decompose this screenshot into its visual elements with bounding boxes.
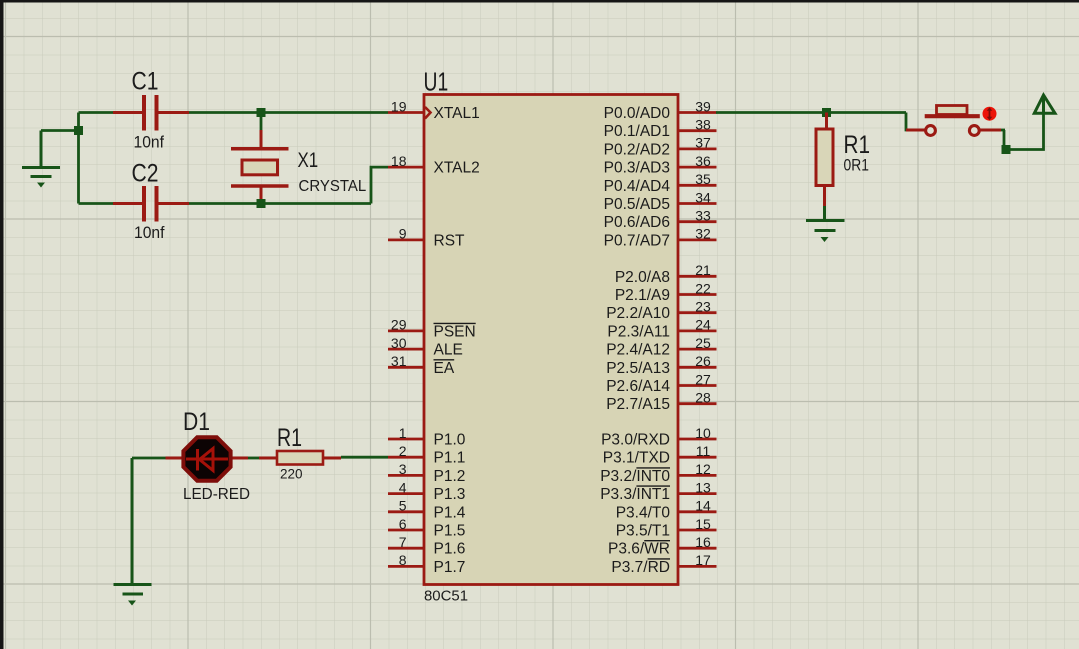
svg-text:EA: EA <box>434 360 455 377</box>
pin 6 P1.5 <box>388 516 465 540</box>
svg-text:P1.7: P1.7 <box>434 559 466 576</box>
crystal X1 <box>231 130 366 199</box>
wire bottom net C2 to xtal2 jog <box>189 202 371 205</box>
wire bottom net XTAL2 segment left of C2 <box>79 202 114 205</box>
svg-text:10nf: 10nf <box>134 132 165 151</box>
wire R1 to P1.1 pin <box>341 456 388 459</box>
pin 8 P1.7 <box>388 552 465 576</box>
push button <box>906 106 1001 136</box>
svg-text:P1.5: P1.5 <box>434 523 466 540</box>
svg-text:CRYSTAL: CRYSTAL <box>299 178 367 195</box>
svg-text:22: 22 <box>695 280 711 296</box>
svg-text:P3.2/INT0: P3.2/INT0 <box>600 468 670 485</box>
node junction at (826.5,112.5) <box>822 108 831 117</box>
pin 35 P0.4/AD4 <box>604 171 717 195</box>
svg-text:P1.4: P1.4 <box>434 504 466 521</box>
wire button to power <box>1004 113 1044 150</box>
pin 11 P3.1/TXD <box>603 443 717 467</box>
wire ground to vertical bus <box>41 129 79 132</box>
svg-text:21: 21 <box>695 262 711 278</box>
svg-text:P3.6/WR: P3.6/WR <box>608 541 670 558</box>
node junction crystal top (261,112.5) <box>257 108 266 117</box>
pin 22 P2.1/A9 <box>615 280 717 304</box>
resistor R1 0R1 (vertical) <box>816 113 870 208</box>
pin 4 P1.3 <box>388 479 465 503</box>
svg-text:XTAL2: XTAL2 <box>434 160 480 177</box>
svg-text:23: 23 <box>695 299 711 315</box>
svg-text:12: 12 <box>695 461 711 477</box>
ground (left, near C1/C2) <box>22 131 60 188</box>
wire top net XTAL1 segment left of C1 <box>79 111 114 114</box>
pin 27 P2.6/A14 <box>606 371 716 395</box>
svg-text:P2.6/A14: P2.6/A14 <box>606 378 670 395</box>
svg-text:30: 30 <box>391 335 407 351</box>
pin 26 P2.5/A13 <box>606 353 716 377</box>
wire LED net from ground riser <box>132 457 166 460</box>
svg-text:11: 11 <box>696 443 711 459</box>
pin 2 P1.1 <box>388 443 465 467</box>
pin 39 P0.0/AD0 <box>604 98 717 122</box>
svg-text:14: 14 <box>695 498 711 514</box>
pin 31 EA <box>388 353 455 377</box>
wire crystal top drop <box>260 113 263 132</box>
svg-text:1: 1 <box>399 425 407 441</box>
pin 24 P2.3/A11 <box>607 317 716 341</box>
pin 37 P0.2/AD2 <box>604 135 717 159</box>
svg-text:34: 34 <box>695 189 711 205</box>
svg-text:3: 3 <box>399 461 407 477</box>
svg-text:P3.7/RD: P3.7/RD <box>611 559 670 576</box>
svg-text:37: 37 <box>695 135 711 151</box>
svg-text:P1.3: P1.3 <box>434 486 466 503</box>
svg-text:18: 18 <box>391 153 407 169</box>
svg-text:P0.4/AD4: P0.4/AD4 <box>604 178 671 195</box>
pin 28 P2.7/A15 <box>606 390 716 414</box>
pin 38 P0.1/AD1 <box>604 117 717 141</box>
svg-text:D1: D1 <box>183 408 210 436</box>
svg-text:P3.0/RXD: P3.0/RXD <box>601 432 670 449</box>
pin 33 P0.6/AD6 <box>604 208 717 232</box>
pin 36 P0.3/AD3 <box>604 153 717 177</box>
svg-text:X1: X1 <box>298 149 319 172</box>
svg-text:P0.6/AD6: P0.6/AD6 <box>604 214 670 231</box>
svg-text:LED-RED: LED-RED <box>183 486 250 503</box>
svg-text:25: 25 <box>695 335 711 351</box>
pin 13 P3.3/INT1 <box>600 479 716 503</box>
IC U1 80C51 <box>424 95 678 585</box>
wire top net C1 to crystal node <box>189 111 388 114</box>
svg-text:P2.5/A13: P2.5/A13 <box>606 360 670 377</box>
svg-text:P1.2: P1.2 <box>434 468 466 485</box>
pin 14 P3.4/T0 <box>616 498 717 522</box>
svg-text:35: 35 <box>695 171 711 187</box>
svg-text:8: 8 <box>399 552 407 568</box>
wire jog up to XTAL2 pin <box>371 167 388 203</box>
pin 3 P1.2 <box>388 461 465 485</box>
svg-text:P2.2/A10: P2.2/A10 <box>606 305 670 322</box>
svg-text:P2.3/A11: P2.3/A11 <box>607 323 670 340</box>
pin 15 P3.5/T1 <box>616 516 717 540</box>
button actuator indicator <box>983 107 997 121</box>
pin 10 P3.0/RXD <box>601 425 716 449</box>
svg-text:17: 17 <box>695 552 711 568</box>
pin 1 P1.0 <box>388 425 466 449</box>
pin 16 P3.6/WR <box>608 534 717 558</box>
svg-text:29: 29 <box>391 317 407 333</box>
pin 5 P1.4 <box>388 498 466 522</box>
svg-text:P2.4/A12: P2.4/A12 <box>606 342 670 359</box>
svg-text:28: 28 <box>695 390 711 406</box>
pin 29 PSEN <box>388 317 476 341</box>
pin XTAL1 clock marker <box>425 107 431 119</box>
svg-text:27: 27 <box>695 371 711 387</box>
svg-text:P1.0: P1.0 <box>434 432 466 449</box>
pin 30 ALE <box>388 335 463 359</box>
svg-text:RST: RST <box>434 232 466 249</box>
svg-text:P3.4/T0: P3.4/T0 <box>616 504 671 521</box>
pin 17 P3.7/RD <box>611 552 716 576</box>
svg-text:220: 220 <box>280 467 303 482</box>
svg-text:C2: C2 <box>132 159 159 187</box>
svg-text:P0.1/AD1: P0.1/AD1 <box>604 123 670 140</box>
svg-text:4: 4 <box>399 479 407 495</box>
ground (under R1 0R1) <box>806 206 845 242</box>
svg-text:6: 6 <box>399 516 407 532</box>
svg-text:R1: R1 <box>844 131 871 159</box>
svg-text:P0.7/AD7: P0.7/AD7 <box>604 232 670 249</box>
node junction crystal bottom (261,203.5) <box>257 199 266 208</box>
svg-text:15: 15 <box>695 516 711 532</box>
svg-text:10nf: 10nf <box>134 223 165 242</box>
svg-text:P1.6: P1.6 <box>434 541 466 558</box>
pin 12 P3.2/INT0 <box>600 461 716 485</box>
svg-text:P2.1/A9: P2.1/A9 <box>615 287 670 304</box>
pin 25 P2.4/A12 <box>606 335 716 359</box>
svg-text:P3.1/TXD: P3.1/TXD <box>603 450 670 467</box>
svg-text:P3.5/T1: P3.5/T1 <box>616 523 670 540</box>
svg-text:U1: U1 <box>424 66 449 96</box>
pin 23 P2.2/A10 <box>606 299 716 323</box>
svg-text:7: 7 <box>399 534 407 550</box>
capacitor C2 <box>113 159 189 242</box>
svg-text:R1: R1 <box>277 424 302 452</box>
svg-text:PSEN: PSEN <box>434 323 476 340</box>
resistor R1 220 (horizontal) <box>259 424 341 482</box>
ground (under LED D1) <box>114 458 152 606</box>
capacitor C1 <box>113 68 189 152</box>
svg-text:33: 33 <box>695 208 711 224</box>
power symbol (VCC arrow) <box>1034 95 1055 113</box>
wire pin39 net drop to button <box>906 113 925 131</box>
svg-text:P0.5/AD5: P0.5/AD5 <box>604 196 670 213</box>
svg-text:31: 31 <box>391 353 407 369</box>
svg-text:32: 32 <box>695 226 711 242</box>
svg-text:80C51: 80C51 <box>424 588 468 604</box>
svg-text:36: 36 <box>695 153 711 169</box>
wire crystal bottom rise <box>260 198 263 204</box>
svg-text:P2.0/A8: P2.0/A8 <box>615 269 670 286</box>
node junction at (1005,149.5) <box>1002 145 1011 154</box>
svg-text:XTAL1: XTAL1 <box>434 105 480 122</box>
wire vertical bus x=78.5 <box>77 113 80 204</box>
svg-text:2: 2 <box>399 443 407 459</box>
svg-text:13: 13 <box>695 479 711 495</box>
svg-text:P0.0/AD0: P0.0/AD0 <box>604 105 671 122</box>
pin 34 P0.5/AD5 <box>604 189 717 213</box>
svg-text:P1.1: P1.1 <box>434 450 466 467</box>
svg-text:9: 9 <box>399 226 407 242</box>
pin 19 XTAL1 <box>388 98 480 122</box>
svg-text:0R1: 0R1 <box>844 156 869 174</box>
pin 9 RST <box>388 226 465 250</box>
wire LED to R1 <box>248 457 260 460</box>
svg-text:26: 26 <box>695 353 711 369</box>
LED D1 <box>166 408 251 503</box>
pin 18 XTAL2 <box>388 153 480 177</box>
pin 21 P2.0/A8 <box>615 262 717 286</box>
svg-text:24: 24 <box>695 317 711 333</box>
svg-text:16: 16 <box>695 534 711 550</box>
svg-text:ALE: ALE <box>434 342 463 359</box>
svg-text:19: 19 <box>391 98 407 114</box>
svg-text:39: 39 <box>695 98 711 114</box>
wire P0.0 net from pin 39 <box>716 111 906 114</box>
svg-text:10: 10 <box>695 425 711 441</box>
pin 7 P1.6 <box>388 534 465 558</box>
svg-text:P0.3/AD3: P0.3/AD3 <box>604 160 670 177</box>
svg-text:C1: C1 <box>132 68 159 96</box>
svg-text:38: 38 <box>695 117 711 133</box>
svg-text:5: 5 <box>399 498 407 514</box>
svg-text:P0.2/AD2: P0.2/AD2 <box>604 141 670 158</box>
svg-text:P3.3/INT1: P3.3/INT1 <box>600 486 670 503</box>
pin 32 P0.7/AD7 <box>604 226 717 250</box>
svg-text:P2.7/A15: P2.7/A15 <box>606 396 670 413</box>
node junction at (78.5,130.5) <box>74 126 83 135</box>
